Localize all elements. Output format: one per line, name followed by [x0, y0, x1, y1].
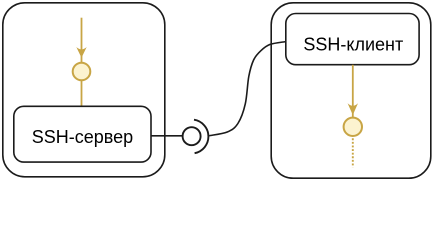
arrowhead: gold down arrow (right) — [348, 103, 358, 115]
node: gold state circle (right) — [344, 118, 362, 136]
node: interface ball (provided) — [183, 127, 201, 145]
wire: from SSH-server to interface ball — [151, 135, 182, 137]
wire: curve from socket to SSH-client — [209, 42, 285, 136]
svg-text:SSH-сервер: SSH-сервер — [32, 127, 133, 147]
node: interface socket arc (required) — [194, 120, 208, 154]
wire: gold control flow out of SSH-client — [352, 65, 354, 118]
component: SSH-server box — [14, 106, 151, 162]
wire: gold control flow into SSH-server — [81, 18, 83, 63]
node: gold state circle (left) — [73, 63, 91, 81]
arrowhead: gold down arrow (left) — [76, 47, 86, 58]
node: server host (left rounded container) — [3, 3, 165, 177]
svg-text:SSH-клиент: SSH-клиент — [303, 35, 403, 55]
wire: gold line from circle to SSH-server box — [81, 81, 83, 106]
wire: gold dotted continuation — [352, 138, 354, 167]
node: client host (right rounded container) — [271, 3, 431, 178]
component: SSH-client box — [286, 14, 419, 65]
